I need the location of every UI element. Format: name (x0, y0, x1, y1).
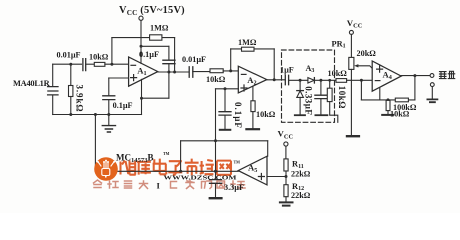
svg-text:10kΩ: 10kΩ (337, 86, 347, 109)
capacitor plates (219, 112, 231, 115)
feedback left riser (180, 141, 182, 172)
svg-text:3.9kΩ: 3.9kΩ (75, 85, 85, 113)
wire Vcc to pot (350, 34, 352, 57)
junction dot feedback tap at minus input (110, 63, 113, 66)
plus marker A5 (258, 174, 264, 180)
minus marker A4 (375, 80, 380, 82)
resistor 3.9kO upper stem (70, 64, 72, 85)
resistor 10kO stem (in box) (329, 80, 331, 88)
capacitor 0.1uF lower stem (108, 100, 110, 115)
resistor 10kO body (in box) (327, 88, 332, 101)
junction dot 3.9k tap (69, 63, 72, 66)
svg-text:10kΩ: 10kΩ (328, 69, 348, 78)
capacitor 0.1uF (bias decoupling) stem (224, 89, 226, 112)
resistor 10kO body (A2 pulldown) (251, 101, 255, 112)
junction dot 0.33uF tap (319, 79, 322, 82)
resistor 10kO body (stage2 series) (210, 69, 223, 73)
wire 10k to A1 minus input (105, 63, 129, 65)
Vcc terminal circle (139, 16, 143, 20)
svg-text:VCC: VCC (278, 129, 294, 141)
feedback riser left A2 (230, 49, 232, 71)
op-amp A4 (372, 61, 401, 91)
svg-text:0.1µF: 0.1µF (233, 102, 243, 129)
ground bar (pot) (347, 135, 359, 137)
svg-text:22kΩ: 22kΩ (291, 170, 311, 179)
A4 Vminus stub (379, 88, 381, 100)
sensor MA40L1R element (three plates) (48, 87, 58, 95)
junction dot Vcc branch (140, 45, 143, 48)
svg-text:PR1: PR1 (332, 39, 346, 49)
wire A2 Vminus stub (252, 86, 254, 101)
watermark TM marks (163, 151, 240, 165)
wire A1 plus input (109, 77, 129, 79)
svg-text:1MΩ: 1MΩ (238, 38, 257, 47)
junction dot shunt diode tap (299, 79, 302, 82)
shunt diode (pointing up) (297, 90, 304, 92)
svg-text:VCC: VCC (347, 18, 363, 30)
svg-text:20kΩ: 20kΩ (357, 49, 377, 58)
capacitor 3.3uF plates (210, 180, 222, 184)
wire 1uF to diode (289, 79, 308, 81)
R12 lower stem (285, 197, 287, 202)
ground bar (bias decoupling) (220, 129, 231, 131)
capacitor stem down through output line (168, 64, 170, 98)
capacitor 0.1uF plates (163, 60, 175, 64)
wire interstage to 10k (193, 71, 210, 73)
capacitor 1uF plates (285, 75, 288, 84)
A5 feedback row (181, 140, 268, 142)
svg-text:10kΩ: 10kΩ (206, 75, 226, 84)
junction dot rail/3.9k (69, 113, 72, 116)
wire 10k to A4 minus input (347, 79, 373, 81)
junction dot 10k tap (328, 79, 331, 82)
resistor 10kO body (series to A4) (336, 79, 347, 83)
bias vertical main (215, 89, 217, 180)
resistor R11 body (284, 159, 288, 171)
junction dot cap/output (167, 71, 170, 74)
riser to minus input (360, 80, 362, 100)
wire A1 Vminus stub (141, 79, 143, 114)
junction dot R11/R12 (285, 175, 288, 178)
plus marker A2 (241, 85, 247, 91)
feedback riser (A4 output) (414, 76, 416, 100)
svg-text:MC14573B: MC14573B (116, 153, 154, 165)
capacitor lower stem (224, 115, 226, 129)
wire leader down to A5 bias line (94, 115, 96, 172)
feedback right riser to A5 minus (267, 141, 269, 156)
op-amp A2 (238, 66, 266, 93)
capacitor 3.3uF stem (215, 184, 217, 198)
feedback riser left (111, 38, 113, 65)
minus marker A2 (241, 73, 246, 75)
junction dot left riser (179, 170, 182, 173)
svg-text:R11: R11 (292, 160, 304, 170)
wire A1 output (158, 71, 189, 73)
junction dot A2 feedback tap (229, 69, 232, 72)
svg-text:3.3µF: 3.3µF (224, 183, 244, 192)
ground T-bar (shunt diode) (295, 114, 305, 116)
junction dot rail/ground (107, 113, 110, 116)
capacitor 0.1uF (A1 + input decoupling) upper stem (108, 78, 110, 96)
lower terminal ground stem (431, 87, 433, 99)
wire A5 plus input (267, 176, 286, 178)
svg-text:0.1µF: 0.1µF (139, 50, 159, 59)
ground bar (A2 pulldown) (246, 128, 259, 130)
sensor lower stem (52, 96, 54, 115)
svg-text:I: I (157, 181, 161, 191)
potentiometer PR1 20kO body (349, 57, 354, 69)
minus marker A1 (131, 64, 136, 66)
ground rail (stage1 bottom) (53, 114, 142, 116)
capacitor 0.1uF plates (103, 96, 115, 100)
resistor 1MO body (A2) (242, 47, 255, 51)
wire Vcc to R11 (285, 146, 287, 159)
label output (Chinese: fake strokes) (440, 71, 455, 78)
junction dot 10k divider tap (387, 98, 390, 101)
junction dot output/feedback (413, 74, 416, 77)
junction dot bias/output row (214, 170, 217, 173)
junction dot bias/feedback row (214, 139, 217, 142)
svg-text:A3: A3 (306, 64, 315, 74)
resistor 3.9kO lower stem (70, 97, 72, 115)
svg-text:10kΩ: 10kΩ (390, 109, 410, 118)
feedback riser right (174, 38, 176, 72)
ground T-bar (0.33uF) (315, 114, 327, 116)
wire Vcc branch to decoupling cap (141, 45, 169, 47)
ground bars (R12) (280, 202, 293, 205)
shunt diode stem (299, 80, 301, 90)
capacitor 0.01uF plates (83, 59, 86, 71)
resistor bottom L wire (330, 102, 338, 123)
junction dot feedback/output (173, 71, 176, 74)
ground bar (3.3uF) (210, 197, 222, 199)
shunt diode lower stem (299, 97, 301, 114)
ground symbol under rail (108, 115, 110, 126)
capacitor 0.33uF stem (320, 80, 322, 95)
ground bars (output) (427, 99, 437, 102)
ground bar (divider) (382, 114, 393, 116)
Vcc terminal circle (A4) (349, 30, 353, 34)
divider resistor stem (387, 111, 389, 114)
output terminal circle (430, 74, 434, 78)
resistor R12 body (284, 185, 288, 197)
lower output terminal circle (430, 83, 434, 87)
op-amp A5 (points left) (238, 156, 267, 185)
pot lower wire to ground (350, 69, 352, 135)
wire cap to 10k (86, 63, 95, 65)
capacitor lower stem (320, 99, 322, 115)
junction dot A2 output/feedback (273, 78, 276, 81)
plus marker A4 (377, 66, 383, 72)
dashed box (detector block) (282, 50, 335, 122)
watermark big orange row (fake CJK strokes) (121, 159, 232, 176)
svg-text:TM: TM (163, 151, 170, 156)
diode A3 (series) (308, 78, 314, 83)
feedback row A2 (231, 48, 275, 50)
resistor 1MO body (150, 35, 162, 40)
wire 10k to A2 minus (223, 70, 238, 72)
resistor lower stem (252, 112, 254, 129)
svg-text:MA40L1R: MA40L1R (13, 79, 51, 88)
junction dot rail/bias leader (94, 113, 97, 116)
junction dot A4 feedback tap (360, 79, 363, 82)
svg-text:0.01µF: 0.01µF (57, 51, 81, 60)
wire diode to box edge (314, 79, 336, 81)
feedback riser right A2 (273, 49, 275, 80)
resistor 10kO body (A4 divider) (386, 100, 390, 110)
svg-text:VCC (5V~15V): VCC (5V~15V) (119, 5, 185, 17)
wire Vminus branch to cap stem (142, 97, 169, 99)
capacitor 0.01uF plates (interstage) (189, 67, 193, 77)
svg-text:TM: TM (234, 160, 241, 165)
sensor MA40L1R top wire (53, 63, 82, 65)
watermark logo disc (on top) (94, 157, 118, 181)
pot wiper arrow (357, 66, 372, 69)
capacitor 0.33uF plates (315, 95, 327, 98)
svg-text:0.01µF: 0.01µF (182, 55, 206, 64)
svg-text:WWW.DZSC.COM: WWW.DZSC.COM (164, 175, 237, 182)
wire A2 plus input (bias) (216, 88, 239, 90)
svg-text:22kΩ: 22kΩ (291, 191, 311, 200)
feedback row wire (112, 37, 175, 39)
wire A4 output (401, 75, 430, 77)
sensor MA40L1R left branch upper stem (52, 64, 54, 85)
resistor 100kO body (395, 98, 408, 102)
svg-text:1MΩ: 1MΩ (150, 23, 169, 32)
svg-text:10kΩ: 10kΩ (89, 53, 109, 62)
wire Vcc down to A1 top (140, 20, 142, 63)
watermark bottom row 全球最大IC采购网站 (fake CJK strokes) (94, 180, 246, 189)
resistor 10kO body (stage1 series) (94, 62, 105, 66)
svg-text:0.1µF: 0.1µF (113, 101, 133, 110)
junction dot Vminus branch (140, 97, 143, 100)
wire R11 to junction (285, 171, 287, 185)
svg-text:10kΩ: 10kΩ (256, 110, 276, 119)
svg-text:0.33µF: 0.33µF (303, 86, 313, 115)
A5 output row (bias line) (95, 170, 238, 172)
op-amp A1 (129, 57, 158, 86)
resistor 3.9kO body (69, 86, 73, 97)
junction dot bias decoupling tap (224, 87, 227, 90)
wire A2 output (267, 79, 285, 81)
capacitor 0.1uF stem upper (168, 46, 170, 60)
feedback row A4 (361, 99, 415, 101)
Vcc terminal circle (divider) (284, 142, 288, 146)
plus marker A1 (131, 75, 137, 81)
